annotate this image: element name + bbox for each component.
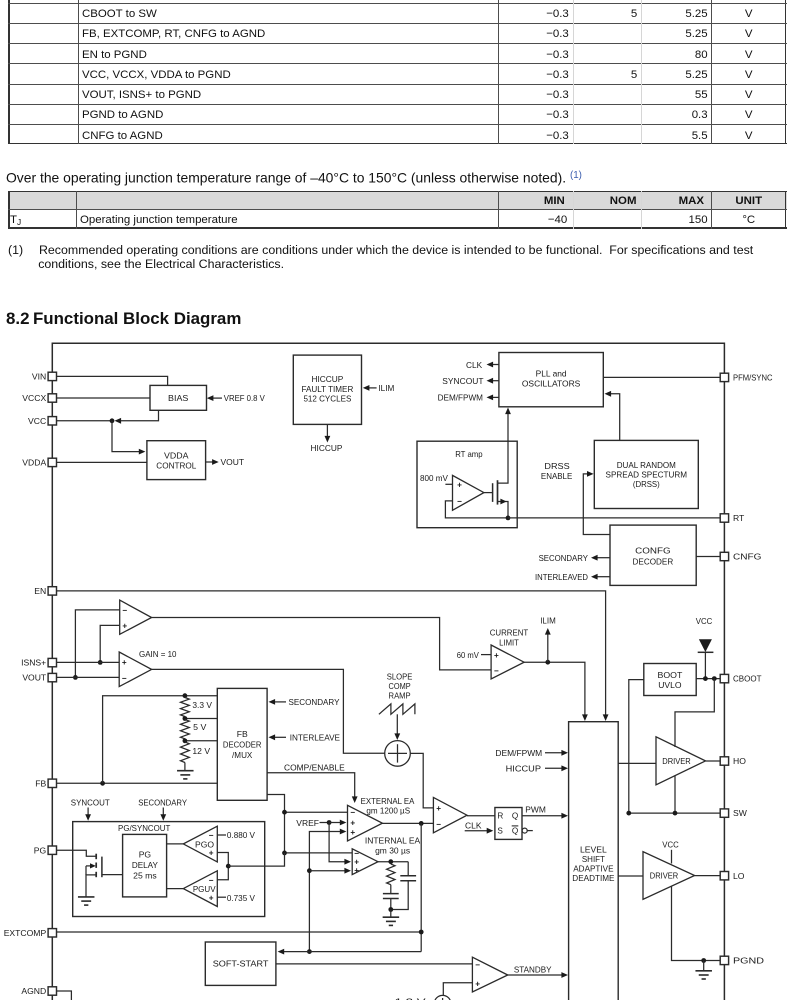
wire HO driver return to SW <box>674 775 676 813</box>
svg-text:GAIN = 10: GAIN = 10 <box>139 649 177 659</box>
svg-text:DRSS: DRSS <box>544 461 570 471</box>
block BIAS <box>150 385 207 410</box>
svg-text:INTERLEAVED: INTERLEAVED <box>535 572 588 582</box>
svg-text:0.880 V: 0.880 V <box>227 830 255 840</box>
wire RT amp drain to PLL <box>507 413 509 441</box>
svg-text:PLL and: PLL and <box>536 368 567 378</box>
pin VCCX <box>48 394 56 402</box>
pin HO <box>720 757 728 765</box>
wire level shift to HO driver <box>618 762 656 764</box>
pin CNFG <box>720 552 728 560</box>
svg-text:RT amp: RT amp <box>455 449 483 459</box>
pin AGND <box>48 987 56 995</box>
arrow ramp to summer <box>396 714 398 734</box>
svg-text:−: − <box>354 849 359 858</box>
driver HO <box>656 737 706 785</box>
ground comp network <box>388 907 393 912</box>
svg-text:VCCX: VCCX <box>22 393 46 403</box>
wire comp2 output to summer <box>152 669 385 753</box>
svg-text:PFM/SYNC: PFM/SYNC <box>733 373 773 383</box>
svg-text:UVLO: UVLO <box>658 680 682 690</box>
resistor divider 5V <box>181 720 190 739</box>
svg-text:512 CYCLES: 512 CYCLES <box>303 393 351 403</box>
wire EA output node vertical <box>420 823 422 951</box>
svg-text:INTERNAL EA: INTERNAL EA <box>365 836 421 846</box>
svg-text:HICCUP: HICCUP <box>311 374 343 384</box>
svg-text:PG: PG <box>34 845 47 855</box>
wire node to soft-start <box>283 951 421 953</box>
ground PGND <box>703 961 705 971</box>
svg-text:+: + <box>457 481 462 490</box>
svg-text:RT: RT <box>733 513 745 523</box>
wire boot uvlo sense to SW <box>629 680 644 814</box>
svg-text:CLK: CLK <box>465 821 482 831</box>
svg-text:SECONDARY: SECONDARY <box>138 798 187 808</box>
wire current limit output <box>524 662 585 715</box>
svg-text:+: + <box>350 819 355 828</box>
pin EN <box>48 587 56 595</box>
block BOOT UVLO <box>644 664 696 696</box>
wire opamp to gate <box>484 492 492 494</box>
wire cboot to HO driver top <box>675 679 714 747</box>
svg-text:CLK: CLK <box>466 360 482 370</box>
op-amp U RTamp <box>453 475 484 510</box>
svg-text:DEM/FPWM: DEM/FPWM <box>438 393 483 403</box>
wire INT EA output <box>378 861 408 863</box>
ground divider <box>184 763 186 771</box>
svg-text:PWM: PWM <box>525 805 546 815</box>
diagram frame <box>52 343 724 1000</box>
svg-text:HICCUP: HICCUP <box>311 443 343 453</box>
wire soft-start output to standby <box>276 963 473 965</box>
ILIM output arrow <box>547 634 549 662</box>
pin PGND <box>720 956 728 964</box>
SYNCOUT output <box>493 380 499 382</box>
svg-text:Q: Q <box>512 826 518 835</box>
svg-text:BIAS: BIAS <box>168 393 189 403</box>
wire comp1 output to current limit <box>152 618 492 670</box>
svg-text:+: + <box>209 893 214 902</box>
svg-text:OSCILLATORS: OSCILLATORS <box>522 379 581 389</box>
svg-text:CURRENT: CURRENT <box>490 628 529 638</box>
wire BIAS to VCC node <box>116 410 159 421</box>
ILIM input <box>369 387 377 389</box>
wire PLL to PFM/SYNC pin <box>603 376 720 378</box>
capacitor comp C1 <box>390 885 392 894</box>
ground PG transistor <box>78 896 95 898</box>
wire level shift to LO driver <box>618 875 643 877</box>
svg-text:SOFT-START: SOFT-START <box>213 959 269 969</box>
comparator PGUV <box>183 871 217 907</box>
svg-text:VDDA: VDDA <box>22 458 46 468</box>
svg-text:LEVEL: LEVEL <box>580 845 607 855</box>
svg-text:+: + <box>475 979 480 988</box>
svg-text:−: − <box>122 606 127 615</box>
svg-text:−: − <box>350 808 355 817</box>
svg-text:HO: HO <box>733 756 746 766</box>
wire CBOOT <box>696 678 720 680</box>
resistor divider 3.3V <box>183 693 188 698</box>
svg-text:DEM/FPWM: DEM/FPWM <box>495 748 542 758</box>
block PLL and OSCILLATORS <box>499 353 603 407</box>
svg-text:800 mV: 800 mV <box>420 473 448 483</box>
svg-text:1.2 V: 1.2 V <box>395 996 426 1000</box>
block PG/SYNCOUT <box>73 822 265 917</box>
svg-text:VIN: VIN <box>32 372 46 382</box>
DEM/FPWM output <box>493 396 499 398</box>
svg-text:−: − <box>475 961 480 970</box>
wire PG sense node <box>228 853 284 866</box>
wire VCC node to VDDA CONTROL <box>112 421 143 452</box>
pin LO <box>720 872 728 880</box>
svg-text:DEADTIME: DEADTIME <box>572 873 614 883</box>
block VDDA CONTROL <box>147 441 206 480</box>
svg-text:SHIFT: SHIFT <box>582 854 606 864</box>
wire EN <box>57 591 606 716</box>
wire PGUV to PG DELAY <box>167 888 184 890</box>
pin RT <box>720 514 728 522</box>
wire FB branch to divider top <box>103 696 218 784</box>
driver LO <box>643 852 695 900</box>
block CONFG DECODER <box>610 525 696 585</box>
svg-text:DELAY: DELAY <box>132 860 158 870</box>
svg-text:SYNCOUT: SYNCOUT <box>71 798 111 808</box>
svg-text:PGND: PGND <box>733 956 764 966</box>
block LEVEL SHIFT ADAPTIVE DEADTIME <box>569 722 619 1000</box>
Qbar bubble <box>522 828 527 833</box>
summer node (bottom reference) <box>434 995 451 1000</box>
svg-text:CBOOT: CBOOT <box>733 674 762 684</box>
svg-text:+: + <box>354 866 359 875</box>
svg-text:DRIVER: DRIVER <box>650 872 679 881</box>
wire PGO plus / PGUV minus <box>217 853 228 880</box>
svg-text:VCC: VCC <box>662 840 679 850</box>
svg-text:EXTERNAL EA: EXTERNAL EA <box>361 796 415 806</box>
transistor Q RTamp <box>492 483 494 502</box>
svg-text:ADAPTIVE: ADAPTIVE <box>573 864 614 874</box>
svg-text:−: − <box>122 674 127 683</box>
diode D boot <box>699 639 712 652</box>
wire ISNS+ <box>57 661 119 663</box>
0.880 V reference <box>217 834 226 836</box>
svg-text:HICCUP: HICCUP <box>506 763 542 773</box>
wire soft-start to EA plus inputs <box>309 832 341 952</box>
svg-text:ILIM: ILIM <box>378 383 394 393</box>
pin VOUT <box>48 673 56 681</box>
block HICCUP FAULT TIMER 512 CYCLES <box>293 355 361 424</box>
svg-text:ENABLE: ENABLE <box>541 471 573 481</box>
wire HO <box>706 760 721 762</box>
block DUAL RANDOM SPREAD SPECTURM (DRSS) <box>594 440 698 508</box>
wire FB <box>57 782 218 784</box>
svg-text:12 V: 12 V <box>192 746 210 756</box>
svg-text:DECODER: DECODER <box>223 740 262 750</box>
wire PWM output to RS latch <box>467 815 495 817</box>
wire LO <box>695 875 720 877</box>
svg-text:DRIVER: DRIVER <box>662 757 691 766</box>
svg-text:PG: PG <box>139 850 152 860</box>
svg-text:INTERLEAVE: INTERLEAVE <box>290 733 341 743</box>
svg-text:gm 30 µs: gm 30 µs <box>375 845 410 855</box>
wire FB signal to EXT EA minus <box>285 811 348 813</box>
pin EXTCOMP <box>48 929 56 937</box>
wire summer to PWM comparator <box>410 753 433 808</box>
wire PG pin to transistor <box>57 850 96 856</box>
pin VDDA <box>48 458 56 466</box>
block SOFT-START <box>205 942 276 985</box>
svg-text:FAULT TIMER: FAULT TIMER <box>302 384 354 394</box>
wire VIN to BIAS <box>57 376 168 385</box>
svg-text:+: + <box>436 804 441 813</box>
svg-text:EN: EN <box>34 586 46 596</box>
HICCUP output arrow <box>326 424 328 436</box>
pin SW <box>720 809 728 817</box>
wire CONFG DECODER to DRSS enable <box>583 474 610 535</box>
svg-text:+: + <box>494 651 499 660</box>
sawtooth symbol <box>379 704 415 714</box>
svg-text:0.735 V: 0.735 V <box>227 893 255 903</box>
svg-text:EXTCOMP: EXTCOMP <box>4 928 47 938</box>
pin PFM/SYNC <box>720 373 728 381</box>
0.735 V reference <box>217 896 226 898</box>
svg-text:VCC: VCC <box>696 616 713 626</box>
wire VDDA pin <box>57 461 147 463</box>
svg-text:(DRSS): (DRSS) <box>633 479 660 489</box>
svg-text:VDDA: VDDA <box>164 450 189 460</box>
SECONDARY output <box>598 557 611 559</box>
flip-flop RS latch <box>495 808 522 840</box>
pin VIN <box>48 372 56 380</box>
svg-text:FB: FB <box>35 778 46 788</box>
svg-text:SECONDARY: SECONDARY <box>289 697 340 707</box>
wire PGO to PG DELAY <box>167 843 184 845</box>
svg-text:−: − <box>209 831 214 840</box>
svg-text:−: − <box>457 497 462 506</box>
wire FB signal to INT EA minus <box>285 852 353 854</box>
pin ISNS+ <box>48 658 56 666</box>
svg-text:SECONDARY: SECONDARY <box>539 553 589 563</box>
svg-text:VOUT: VOUT <box>221 457 245 467</box>
svg-text:ILIM: ILIM <box>540 615 556 625</box>
CLK output <box>493 364 499 366</box>
svg-text:SPREAD SPECTURM: SPREAD SPECTURM <box>606 469 688 479</box>
block FB DECODER /MUX <box>217 688 267 800</box>
wire VOUT <box>57 676 119 678</box>
INTERLEAVED output <box>598 576 611 578</box>
wire EA output to PWM minus <box>382 822 433 824</box>
svg-text:+: + <box>122 658 127 667</box>
VOUT output arrow <box>206 461 216 463</box>
wire EXTCOMP <box>57 931 422 933</box>
svg-text:5 V: 5 V <box>193 722 206 732</box>
pin FB <box>48 779 56 787</box>
svg-text:VOUT: VOUT <box>22 673 47 683</box>
pin PG <box>48 846 56 854</box>
block RT amp <box>417 441 517 528</box>
svg-text:−: − <box>436 820 441 829</box>
wire AGND <box>57 991 72 1000</box>
svg-text:STANDBY: STANDBY <box>514 964 552 974</box>
SECONDARY input <box>273 701 287 703</box>
svg-text:SW: SW <box>733 808 748 818</box>
svg-text:3.3 V: 3.3 V <box>192 700 212 710</box>
svg-text:LIMIT: LIMIT <box>499 637 519 647</box>
block PG DELAY 25 ms <box>123 834 167 897</box>
wire VCC <box>57 420 112 422</box>
svg-text:VREF 0.8 V: VREF 0.8 V <box>224 393 265 403</box>
wire DRSS to PLL arrow <box>610 394 620 441</box>
svg-text:DUAL RANDOM: DUAL RANDOM <box>617 460 676 470</box>
svg-text:+: + <box>122 622 127 631</box>
wire FB decoder output down <box>267 795 284 853</box>
svg-text:VREF: VREF <box>296 818 319 828</box>
svg-text:FB: FB <box>237 729 248 739</box>
wire VCCX to BIAS <box>57 397 150 399</box>
RT amp feedback wire <box>445 501 508 518</box>
svg-text:DECODER: DECODER <box>633 557 674 567</box>
VREF 0.8 V input <box>209 397 223 399</box>
capacitor comp C2 <box>407 862 409 876</box>
svg-text:VCC: VCC <box>28 416 46 426</box>
svg-text:ISNS+: ISNS+ <box>21 658 46 668</box>
transistor Q PG <box>95 854 97 860</box>
svg-text:25 ms: 25 ms <box>133 871 157 881</box>
wire gate to PG DELAY <box>102 874 123 876</box>
svg-text:gm 1200 µS: gm 1200 µS <box>366 805 410 815</box>
summer node (slope comp) <box>385 741 411 767</box>
svg-text:SYNCOUT: SYNCOUT <box>442 376 484 386</box>
resistor comp R <box>387 864 395 885</box>
svg-text:CNFG: CNFG <box>733 552 762 562</box>
svg-text:AGND: AGND <box>21 986 46 996</box>
svg-text:COMP/ENABLE: COMP/ENABLE <box>284 762 345 772</box>
svg-text:/MUX: /MUX <box>232 750 253 760</box>
pin CBOOT <box>720 674 728 682</box>
wire standby plus input <box>443 983 472 996</box>
wire SW <box>629 812 720 814</box>
svg-text:LO: LO <box>733 871 745 881</box>
svg-text:RAMP: RAMP <box>389 691 411 701</box>
INTERLEAVE input <box>273 736 287 738</box>
comparator PGO <box>183 826 217 862</box>
wire comp1 minus from VOUT <box>75 610 119 678</box>
svg-text:CONTROL: CONTROL <box>156 461 196 471</box>
svg-text:60 mV: 60 mV <box>457 650 479 660</box>
comparator U1 (upper) <box>120 600 152 634</box>
svg-text:−: − <box>209 876 214 885</box>
wire LO driver return to PGND <box>672 886 721 960</box>
wire VREF to EA plus inputs <box>320 822 330 824</box>
pin VCC <box>48 417 56 425</box>
node tap2 <box>184 739 186 741</box>
svg-text:S: S <box>497 826 503 835</box>
comparator STANDBY <box>472 957 507 992</box>
svg-text:PG/SYNCOUT: PG/SYNCOUT <box>118 823 171 833</box>
svg-text:SLOPE: SLOPE <box>387 672 413 682</box>
wire RT to pin <box>508 517 720 519</box>
svg-text:BOOT: BOOT <box>658 670 684 680</box>
svg-text:CONFG: CONFG <box>635 546 671 556</box>
node tap1 <box>184 717 186 719</box>
node RT <box>506 516 511 521</box>
wire comp1 plus from ISNS+ <box>100 625 120 662</box>
svg-text:−: − <box>494 667 499 676</box>
svg-text:+: + <box>350 828 355 837</box>
resistor divider 12V <box>181 742 190 763</box>
wire CNFG pin <box>696 556 720 558</box>
svg-text:Q: Q <box>512 811 518 820</box>
svg-text:+: + <box>209 849 214 858</box>
svg-text:R: R <box>497 811 503 820</box>
comparator U2 GAIN=10 <box>119 652 151 687</box>
comparator PWM <box>433 797 467 832</box>
